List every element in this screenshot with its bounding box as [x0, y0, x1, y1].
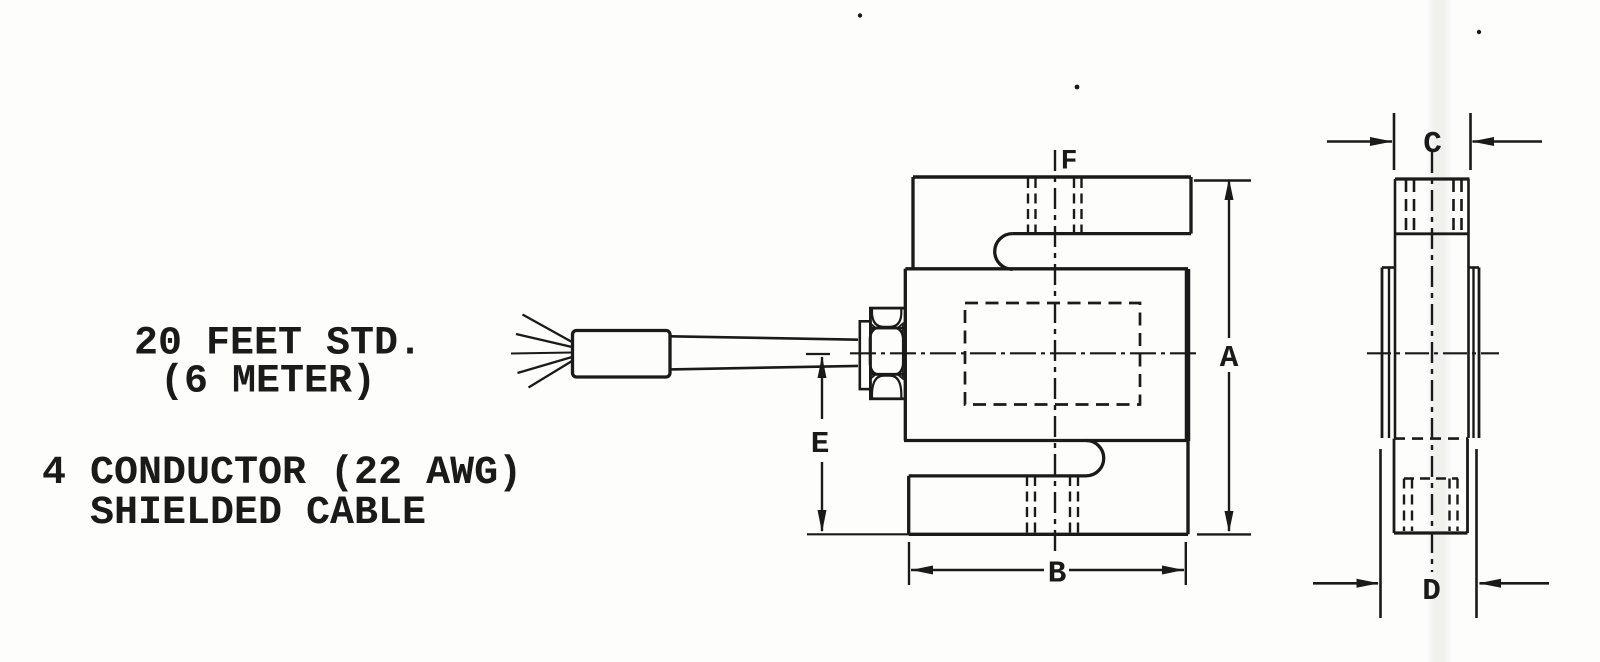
lower slot end arc	[1086, 440, 1104, 475]
side view right shoulder	[1469, 266, 1480, 269]
side view top threads dashed	[1406, 180, 1462, 234]
dimension B line left	[911, 569, 1044, 571]
svg-text:B: B	[1048, 557, 1067, 592]
dimension B left extension	[908, 542, 910, 585]
dimension A line lower	[1228, 372, 1230, 531]
dimension B right extension	[1185, 542, 1187, 585]
cable jacket	[573, 331, 671, 378]
stray speck 1	[858, 13, 862, 17]
nut lower band line	[870, 373, 905, 376]
bottom slab bottom edge	[909, 533, 1188, 536]
dimension C arrow left-pointing	[1472, 137, 1495, 146]
front view vertical centerline	[1054, 150, 1056, 557]
frayed wire 4	[518, 357, 573, 373]
bottom slab right edge	[1186, 441, 1189, 534]
frayed wire 1	[523, 315, 573, 343]
side view bottom block left edge	[1393, 439, 1396, 533]
top slab top edge	[913, 175, 1191, 178]
svg-text:(6 METER): (6 METER)	[160, 360, 376, 405]
nut upper band line	[870, 327, 905, 330]
dimension C left extension	[1393, 113, 1396, 170]
stray speck 3	[1477, 30, 1481, 34]
front view horizontal centerline	[850, 352, 1197, 354]
upper slot top line	[1013, 232, 1191, 235]
svg-text:E: E	[811, 427, 830, 462]
top slab left edge	[911, 177, 914, 269]
side view bottom block right edge	[1466, 439, 1469, 533]
nut top chamfer arcs	[872, 309, 901, 327]
bottom edge extension left for E	[807, 533, 909, 535]
cable top line	[670, 336, 858, 339]
side view bottom hole top dashed	[1404, 477, 1458, 479]
side view bottom hole dashed verticals	[1404, 479, 1458, 532]
side view middle inner right line	[1472, 268, 1474, 439]
middle block bottom edge	[904, 439, 1188, 442]
side view top block right edge	[1467, 179, 1470, 438]
svg-text:D: D	[1422, 574, 1441, 609]
stray speck 2	[1075, 85, 1080, 90]
cable bottom line	[670, 366, 858, 370]
dimension D left extension	[1379, 449, 1382, 618]
side view middle inner left line	[1388, 268, 1390, 439]
side view thread bottom line	[1395, 232, 1469, 235]
connector nut body	[870, 308, 905, 399]
side view top block top edge	[1395, 177, 1470, 180]
nut bottom chamfer arcs	[872, 376, 901, 398]
side view top block left edge	[1394, 179, 1397, 438]
dimension D arrow left-pointing	[1479, 579, 1502, 588]
dimension C right extension	[1469, 113, 1472, 170]
svg-text:F: F	[1061, 147, 1078, 178]
frayed wire 5	[529, 361, 573, 388]
middle block top edge	[905, 267, 1188, 270]
hidden square hole dashed rect	[965, 303, 1140, 405]
side view horizontal centerline	[1367, 352, 1499, 354]
dimension A arrow up	[1225, 179, 1234, 201]
dimension C left arrow line	[1327, 140, 1392, 143]
dimension A top extension	[1194, 179, 1251, 181]
dimension A arrow down	[1225, 511, 1234, 533]
nut barrel	[870, 328, 903, 374]
side view vertical centerline	[1431, 152, 1433, 572]
dimension E arrow up	[818, 356, 827, 378]
dimension E tick	[806, 353, 830, 355]
dimension D arrow right-pointing	[1357, 579, 1380, 588]
dimension E line lower	[821, 462, 823, 531]
middle block left edge	[904, 269, 907, 441]
svg-text:SHIELDED CABLE: SHIELDED CABLE	[90, 491, 426, 536]
frayed wire 3	[511, 353, 572, 354]
dimension B arrow right	[1162, 566, 1184, 575]
bottom threaded hole dashed lines	[1027, 476, 1078, 533]
frayed wire 2	[516, 334, 572, 347]
dimension E line upper	[821, 357, 823, 419]
dimension E arrow down	[818, 510, 827, 533]
side view left shoulder	[1382, 266, 1395, 269]
dimension D right extension	[1475, 449, 1478, 618]
dimension A line upper	[1228, 181, 1230, 339]
svg-text:A: A	[1220, 341, 1239, 376]
svg-text:4 CONDUCTOR (22 AWG): 4 CONDUCTOR (22 AWG)	[42, 451, 522, 496]
side view middle outer right edge	[1478, 268, 1481, 439]
bottom slab left edge	[907, 476, 910, 534]
dimension B arrow left	[911, 566, 933, 575]
dimension D left arrow line	[1313, 582, 1378, 585]
middle block right edge thick	[1185, 269, 1191, 441]
upper slot end arc	[995, 234, 1013, 270]
connector flange	[860, 321, 871, 389]
nut corner triangles	[871, 324, 903, 379]
dimension C right arrow line	[1473, 140, 1543, 143]
side view bottom block bottom edge	[1394, 531, 1468, 534]
top threaded hole dashed lines	[1028, 178, 1082, 234]
side view hidden bottom edge dashed	[1394, 437, 1468, 440]
dimension A bottom extension	[1197, 533, 1251, 535]
svg-text:C: C	[1423, 127, 1442, 162]
dimension B line right	[1069, 569, 1184, 571]
dimension D right arrow line	[1480, 582, 1550, 585]
top slab right edge	[1189, 177, 1192, 234]
bottom slab top edge	[909, 474, 1086, 477]
dimension C arrow right-pointing	[1370, 137, 1393, 146]
side view middle outer left edge	[1381, 268, 1384, 439]
scan stripe artifact	[1426, 0, 1452, 662]
